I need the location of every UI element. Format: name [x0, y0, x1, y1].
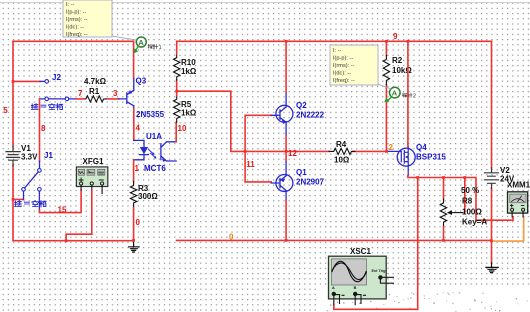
wire top-left rail node 5 to Q3 emitter	[13, 41, 134, 78]
current probe 2	[390, 87, 401, 98]
svg-text:R10: R10	[181, 58, 196, 67]
wire R10-R5 node	[176, 80, 178, 96]
current probe 1	[136, 37, 146, 47]
resistor R1	[84, 96, 107, 102]
svg-text:I: --: I: --	[333, 48, 342, 54]
svg-text:100Ω: 100Ω	[462, 208, 482, 217]
svg-text:2N5355: 2N5355	[136, 110, 165, 119]
svg-text:R2: R2	[392, 56, 403, 65]
svg-text:4: 4	[136, 124, 141, 133]
svg-text:1kΩ: 1kΩ	[181, 109, 197, 118]
svg-text:2N2907: 2N2907	[296, 178, 325, 187]
svg-text:R1: R1	[89, 87, 100, 96]
svg-text:2N2222: 2N2222	[296, 111, 325, 120]
wire Q4 source node	[408, 175, 513, 220]
switch J1	[38, 169, 42, 173]
tooltip probe 1	[63, 0, 112, 37]
watermark-cleared corner	[318, 289, 530, 312]
svg-text:J2: J2	[52, 73, 61, 82]
svg-text:1: 1	[159, 45, 162, 51]
svg-text:U1A: U1A	[146, 132, 162, 141]
svg-text:R8: R8	[462, 197, 473, 206]
mosfet Q4 BSP315	[397, 148, 415, 166]
optocoupler U1A MCT6	[134, 140, 177, 161]
svg-text:0: 0	[229, 232, 234, 241]
svg-text:Q4: Q4	[416, 143, 427, 152]
svg-text:5: 5	[3, 106, 8, 115]
svg-text:BSP315: BSP315	[416, 153, 446, 162]
svg-text:I(dc): --: I(dc): --	[333, 71, 351, 77]
svg-text:XSC1: XSC1	[350, 247, 371, 256]
svg-text:I(p-p): --: I(p-p): --	[333, 56, 353, 62]
wire node 11 path	[177, 91, 272, 182]
svg-text:I(dc): --: I(dc): --	[66, 25, 84, 31]
wire to J2 top throw	[13, 80, 40, 82]
transistor Q3 2N5355	[119, 79, 134, 109]
resistor R10	[174, 54, 180, 80]
wire node 1	[133, 160, 135, 182]
svg-text:Ext Trig: Ext Trig	[372, 269, 387, 273]
svg-text:I(rms): --: I(rms): --	[333, 63, 355, 69]
resistor R4	[329, 148, 355, 154]
resistor R8 potentiometer	[443, 178, 445, 241]
svg-text:A: A	[332, 286, 335, 290]
svg-text:MCT6: MCT6	[144, 164, 166, 173]
wire node 8	[39, 99, 41, 161]
battery V1	[8, 146, 18, 165]
svg-text:2: 2	[413, 94, 416, 100]
svg-text:300Ω: 300Ω	[138, 192, 158, 201]
svg-text:3: 3	[113, 89, 118, 98]
svg-text:4.7kΩ: 4.7kΩ	[84, 77, 107, 86]
window top edge	[0, 2, 530, 3]
switch J2	[45, 80, 49, 84]
svg-text:15: 15	[58, 206, 67, 215]
svg-text:10Ω: 10Ω	[334, 156, 350, 165]
wire node 4	[133, 109, 135, 141]
svg-text:Q3: Q3	[136, 77, 147, 86]
resistor R2	[385, 41, 387, 151]
svg-text:Key=A: Key=A	[462, 218, 487, 227]
svg-text:I(freq): --: I(freq): --	[66, 32, 88, 38]
svg-text:10: 10	[178, 124, 187, 133]
wire node 12	[245, 150, 387, 152]
svg-text:A: A	[138, 38, 144, 47]
svg-text:1kΩ: 1kΩ	[181, 67, 197, 76]
svg-text:I: --: I: --	[66, 2, 75, 8]
bottom rail node 0	[177, 239, 492, 241]
svg-text:7: 7	[78, 89, 83, 98]
svg-text:Q2: Q2	[296, 101, 307, 110]
wire node 10	[175, 122, 177, 142]
transistor Q1 2N2907	[276, 175, 293, 192]
wire Q4 drain to rail	[407, 41, 409, 146]
ground 2	[486, 263, 498, 273]
svg-text:A: A	[392, 89, 398, 98]
svg-text:J1: J1	[44, 151, 53, 160]
transistor Q2 2N2222	[276, 105, 293, 122]
svg-text:I(freq): --: I(freq): --	[333, 78, 355, 84]
top rail node 9	[177, 40, 492, 42]
battery V2	[491, 41, 493, 263]
svg-text:I(p-p): --: I(p-p): --	[66, 10, 86, 16]
XFG1 com wire	[66, 190, 92, 241]
wire to scope A	[334, 178, 418, 310]
svg-text:I(rms): --: I(rms): --	[66, 17, 88, 23]
orange wire XMM1 minus	[491, 217, 523, 241]
svg-text:2: 2	[389, 143, 394, 152]
svg-text:Q1: Q1	[296, 168, 307, 177]
resistor R3	[130, 182, 136, 208]
svg-text:9: 9	[393, 32, 398, 41]
wire node 15 J1 to XFG1 plus	[39, 190, 81, 213]
svg-text:XFG1: XFG1	[83, 157, 104, 166]
wire left vertical node 5	[13, 41, 134, 240]
svg-text:R4: R4	[336, 140, 347, 149]
svg-text:1: 1	[135, 164, 140, 173]
resistor R5	[174, 96, 180, 123]
svg-text:8: 8	[41, 124, 46, 133]
J1 key label	[15, 201, 22, 207]
J2 key label	[31, 104, 38, 110]
svg-text:10kΩ: 10kΩ	[392, 66, 412, 75]
svg-text:3.3V: 3.3V	[21, 153, 38, 162]
svg-text:0: 0	[136, 218, 141, 227]
svg-text:12: 12	[288, 149, 297, 158]
svg-text:XMM1: XMM1	[507, 181, 530, 190]
svg-text:B: B	[354, 286, 357, 290]
ground 1	[129, 240, 139, 252]
svg-text:11: 11	[246, 160, 255, 169]
tooltip probe 2	[330, 45, 378, 85]
svg-text:50 %: 50 %	[461, 186, 479, 195]
